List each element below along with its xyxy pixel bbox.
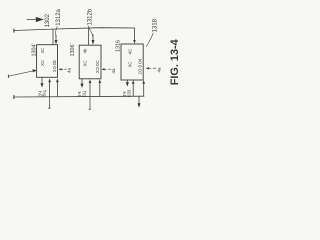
- svg-text:1316: 1316: [116, 40, 122, 52]
- box U1: [37, 45, 58, 78]
- svg-text:1312b: 1312b: [87, 8, 93, 25]
- leader 1318: [147, 33, 154, 47]
- svg-text:033: 033: [126, 89, 131, 97]
- arrowhead U3 bottom out: [126, 82, 129, 86]
- background paper: [0, 0, 188, 120]
- arrowhead U1 bottom out: [40, 83, 43, 87]
- arrowhead U1 bottom in a: [48, 78, 51, 82]
- U2 bottom in wire a: [89, 82, 91, 97]
- leader 1312a: [56, 27, 58, 38]
- U3 below-rail drop wire: [138, 96, 140, 104]
- arrowhead into U3 top: [133, 40, 136, 44]
- svg-text:4C: 4C: [40, 48, 45, 54]
- wire input arrow line top-left: [27, 18, 38, 20]
- svg-text:4b: 4b: [82, 48, 87, 53]
- U2 below-rail stub: [89, 96, 91, 109]
- U3 bottom in wire b: [143, 83, 145, 97]
- arrowhead U1 bottom in b: [56, 78, 59, 82]
- U1 below-rail stub: [48, 97, 50, 109]
- svg-text:БЦ: БЦ: [42, 90, 47, 97]
- U2 bottom out wire: [81, 79, 83, 84]
- svg-text:FIG. 13-4: FIG. 13-4: [169, 39, 181, 85]
- diagonal left end tick: [7, 75, 9, 78]
- arrowhead U3 bottom in a: [132, 80, 135, 84]
- U2 bottom in wire b: [99, 82, 101, 97]
- top rail wire: [14, 28, 135, 41]
- U1 bottom out wire: [41, 78, 43, 84]
- svg-text:4a: 4a: [157, 67, 162, 72]
- wire branch to box U1 top: [52, 29, 54, 44]
- svg-text:XC: XC: [40, 60, 45, 66]
- svg-text:БЦ: БЦ: [81, 90, 86, 97]
- leader 1312b: [88, 26, 93, 37]
- wire arrow into U1 top: [55, 35, 57, 40]
- svg-text:1312a: 1312a: [56, 8, 62, 25]
- wire diagonal input to U1 left: [9, 71, 34, 76]
- wire into U3 side arrow: [148, 67, 157, 69]
- box U3: [121, 44, 143, 80]
- arrowhead diagonal into U1 left: [33, 69, 38, 72]
- svg-text:1304’: 1304’: [31, 43, 37, 56]
- arrowhead U3 drop down: [138, 103, 141, 108]
- svg-text:2O 0b: 2O 0b: [52, 59, 57, 72]
- arrowhead U2 bottom out: [80, 84, 83, 88]
- arrowhead into U2 top: [92, 40, 95, 45]
- bottom rail left end tick: [13, 96, 15, 99]
- arrowhead U2 bottom in a: [89, 79, 92, 83]
- arrowhead U3 side leader: [146, 67, 149, 69]
- wire into U2 side arrow: [103, 68, 111, 70]
- svg-text:4a: 4a: [111, 68, 116, 73]
- U3 bottom in wire a: [132, 83, 134, 97]
- svg-text:XC: XC: [82, 60, 87, 66]
- svg-text:1318: 1318: [152, 18, 159, 32]
- U1 bottom in wire a: [49, 81, 51, 97]
- top rail left end tick: [13, 29, 15, 32]
- U1 bottom in wire b: [56, 81, 58, 97]
- arrowhead U3 bottom in b: [142, 80, 145, 84]
- svg-text:XC: XC: [127, 61, 132, 67]
- U3 bottom out wire: [126, 80, 128, 83]
- wire arrow into U2 top: [92, 35, 94, 41]
- arrowhead U1 side leader: [59, 68, 62, 70]
- wire into U1 side arrow: [61, 68, 67, 70]
- svg-text:2O 0 04: 2O 0 04: [138, 58, 143, 74]
- box U2: [79, 45, 101, 79]
- svg-text:1306’: 1306’: [70, 43, 76, 56]
- wire branch to box U2 top: [88, 28, 90, 45]
- svg-text:4a: 4a: [67, 68, 72, 73]
- svg-text:4C: 4C: [127, 49, 132, 55]
- bottom rail wire: [14, 95, 144, 98]
- arrowhead input top-left: [36, 17, 44, 22]
- arrowhead U2 side leader: [102, 68, 105, 70]
- arrowhead into U1 top: [55, 40, 58, 44]
- arrowhead U2 bottom in b: [99, 79, 102, 83]
- svg-text:1302: 1302: [44, 13, 51, 27]
- svg-text:2O 0C: 2O 0C: [95, 60, 100, 73]
